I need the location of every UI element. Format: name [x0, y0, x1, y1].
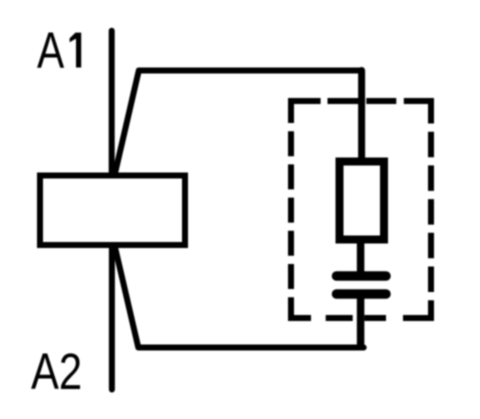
terminal label A1: digit 1: [70, 33, 82, 68]
resistor R1: [340, 162, 385, 240]
svg-text:A2: A2: [31, 343, 82, 400]
wire: A2 lead: [109, 245, 115, 390]
suppressor module boundary: dashed left edge: [288, 98, 294, 321]
suppressor module boundary: dashed bottom edge: [288, 315, 432, 321]
coil K1: [40, 176, 185, 246]
suppressor module boundary: dashed right edge: [428, 98, 434, 321]
wire: A1 lead: [109, 31, 115, 175]
svg-text:A: A: [37, 21, 64, 78]
wire: top branch to suppressor: [115, 71, 362, 173]
wire: drop into module (crosses dashed top): [358, 71, 365, 162]
suppressor module boundary: dashed top edge: [288, 98, 432, 104]
wire: resistor to capacitor: [357, 239, 365, 272]
wire: capacitor to bottom branch (crosses dashed bottom): [357, 294, 365, 348]
capacitor C1 top plate: [337, 271, 387, 281]
capacitor C1 bottom plate: [337, 289, 387, 299]
wire: bottom branch from suppressor: [115, 248, 364, 348]
